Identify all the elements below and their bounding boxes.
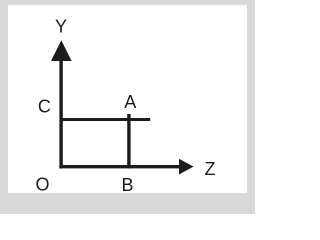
svg-text:Y: Y <box>55 17 67 37</box>
label O (origin) <box>35 175 49 195</box>
svg-text:C: C <box>38 97 51 117</box>
label B <box>121 175 133 195</box>
Z axis line <box>59 165 179 168</box>
line A to B (vertical segment) <box>127 114 130 169</box>
label A <box>124 92 136 112</box>
svg-text:B: B <box>121 175 133 195</box>
label Z <box>205 159 216 179</box>
svg-text:O: O <box>35 175 49 195</box>
label Y <box>55 17 67 37</box>
white diagram panel <box>8 5 247 193</box>
Z axis arrowhead <box>179 159 194 175</box>
svg-text:Z: Z <box>205 159 216 179</box>
Y axis arrowhead <box>51 40 72 61</box>
line C to A (horizontal segment) <box>61 118 150 121</box>
svg-text:A: A <box>124 92 136 112</box>
label C <box>38 97 51 117</box>
Y axis line <box>59 50 62 169</box>
